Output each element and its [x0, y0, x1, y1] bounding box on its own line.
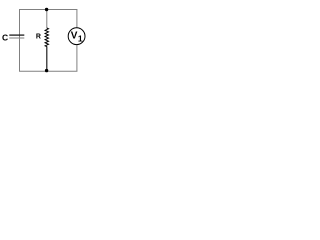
svg-text:R: R [36, 34, 41, 41]
svg-text:V: V [71, 31, 78, 42]
svg-text:C: C [2, 33, 8, 43]
svg-text:1: 1 [78, 34, 83, 44]
